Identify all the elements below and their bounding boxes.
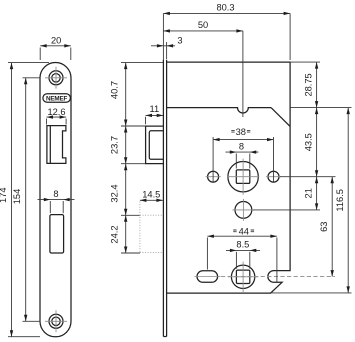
svg-text:32.4: 32.4 [109,184,119,202]
svg-text:14.5: 14.5 [142,190,160,200]
faceplate front view outline [40,63,71,337]
dim 8 deadbolt width [38,189,75,213]
dim 8.5 cylinder square [226,240,260,269]
dim 3 faceplate thickness [151,36,183,59]
dim 12.6 latch width [47,107,67,125]
right side extension lines [253,62,352,293]
dim 116.5 case height [335,108,350,293]
mounting hole left of follower [206,171,221,182]
dim 80.3 overall depth [163,3,290,60]
mounting hole right of follower [266,171,281,182]
svg-text:8: 8 [53,189,58,199]
svg-text:12.6: 12.6 [47,107,65,117]
cylinder follower [228,262,258,292]
dim 50 backset [163,20,243,117]
dim 20 top of faceplate [40,36,71,60]
dim 44 cylinder slot spacing [207,226,277,282]
svg-text:NEMEF: NEMEF [46,95,68,102]
svg-text:44: 44 [239,226,249,236]
dashed centerline through cylinder row [221,276,335,278]
svg-text:11: 11 [149,104,159,114]
svg-text:80.3: 80.3 [216,3,234,13]
dim 154 screw centers [12,78,41,321]
svg-text:24.2: 24.2 [109,225,119,243]
faceplate side view [163,60,166,337]
svg-text:3: 3 [177,36,182,46]
svg-text:63: 63 [319,222,329,232]
dim 11 latch protrusion [146,104,164,124]
svg-text:8.5: 8.5 [236,240,249,250]
follower (spindle hub) [227,159,259,195]
svg-text:40.7: 40.7 [109,81,119,99]
right dim chain 28.75 / 43.5 / 21 [303,62,318,210]
middle dim chain 40.7 / 23.7 / 32.4 / 24.2 [109,63,163,253]
deadbolt thrown position dotted [140,202,163,254]
svg-text:23.7: 23.7 [109,136,119,154]
svg-text:116.5: 116.5 [335,189,345,212]
lock case outline [167,62,291,293]
svg-text:8: 8 [239,141,244,151]
case inner top line with notch and corner bevel [167,108,291,127]
dim 14.5 deadbolt throw [140,190,163,202]
dim 63 follower to cylinder [319,177,334,277]
svg-text:21: 21 [303,188,313,198]
svg-text:28.75: 28.75 [303,73,313,96]
dim 174 overall height [0,63,49,337]
latch bolt side view [146,126,164,164]
svg-text:154: 154 [12,189,22,205]
svg-text:38: 38 [236,127,246,137]
oval mounting slot left [195,271,221,283]
deadbolt front view [50,215,64,253]
svg-text:174: 174 [0,187,8,203]
svg-text:43.5: 43.5 [303,133,313,151]
screw hole top [45,67,67,89]
NEMEF logo [43,94,71,103]
screw hole bottom [45,310,67,332]
svg-text:20: 20 [51,36,61,46]
middle hole below follower [232,199,254,221]
latch bolt front view [47,126,66,164]
dim 8 follower square [226,141,259,168]
dim 38 handle hole spacing [213,127,273,183]
svg-text:50: 50 [198,20,208,30]
